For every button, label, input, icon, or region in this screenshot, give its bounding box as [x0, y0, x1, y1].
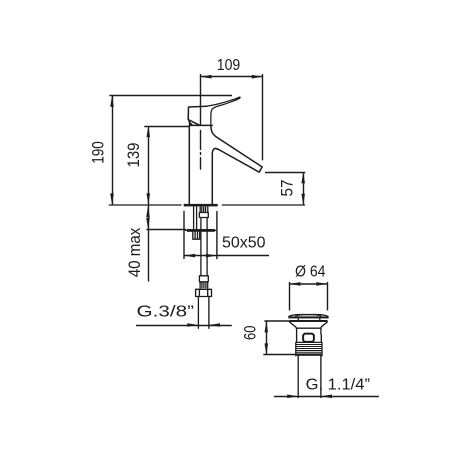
- spout: [211, 125, 262, 172]
- arrow G3/8 left-pointing: [209, 323, 220, 327]
- hose nut knurled: [200, 282, 208, 288]
- flexible hose lower: [201, 232, 207, 276]
- faucet cap notch: [189, 120, 193, 125]
- arrow dia64 left: [289, 282, 300, 286]
- svg-text:G. 1.1/4”: G. 1.1/4”: [306, 377, 370, 394]
- arrow 50x50 left: [184, 254, 195, 258]
- arrow 57 down: [301, 194, 305, 205]
- hex nut G3/8: [196, 289, 212, 296]
- drain flange lower bar: [290, 320, 328, 322]
- arrow 139 down: [147, 193, 151, 204]
- svg-text:40 max: 40 max: [125, 227, 144, 277]
- drain window: [303, 334, 314, 342]
- faucet cap (handle base): [188, 106, 207, 125]
- dim 190 lines: [109, 96, 232, 205]
- drain knurl bottom band: [296, 353, 322, 355]
- dim 40max lines: [146, 205, 186, 282]
- drain body top line: [297, 327, 320, 329]
- arrow 139 up: [147, 126, 151, 137]
- threaded shank with hatch: [200, 206, 208, 212]
- dim 50x50 lines: [184, 211, 269, 259]
- svg-text:60: 60: [241, 326, 260, 340]
- drain plug top face: [296, 315, 322, 317]
- deck line right segment: [222, 204, 304, 206]
- arrow 109 left: [200, 75, 211, 79]
- arrow 57 up: [301, 172, 305, 183]
- hose ferrule: [199, 276, 208, 282]
- arrow 190 down: [110, 193, 114, 204]
- svg-text:109: 109: [217, 57, 241, 74]
- arrow 109 right: [252, 75, 263, 79]
- hose coupling: [199, 213, 208, 218]
- arrow 60 up: [265, 321, 269, 332]
- dim 60 lines: [263, 321, 296, 355]
- mounting flange: [185, 229, 215, 231]
- arrow 40max down: [146, 218, 150, 229]
- dim 57 lines: [265, 172, 305, 205]
- drain body neck: [290, 322, 328, 342]
- connector tube G3/8: [198, 297, 209, 329]
- mounting stud left: [194, 206, 197, 229]
- handle lever: [207, 97, 240, 125]
- deck line left segment: [109, 204, 181, 206]
- dim G1.1/4 line: [274, 396, 379, 398]
- faucet base plate: [184, 204, 218, 207]
- drain knurl section: [296, 342, 322, 355]
- arrow G3/8 right-pointing: [187, 323, 198, 327]
- dim 109 lines: [201, 74, 263, 160]
- dim 139 lines: [144, 126, 188, 205]
- faucet body right edge: [211, 154, 213, 204]
- flexible hose upper: [201, 218, 207, 230]
- svg-text:190: 190: [89, 141, 108, 164]
- arrow 60 down: [265, 343, 269, 354]
- arrow 40max up: [146, 206, 150, 217]
- drain dome cap: [289, 315, 328, 317]
- svg-text:57: 57: [278, 180, 297, 197]
- mounting nut: [193, 232, 200, 239]
- tailpipe edges in flange gap: [298, 318, 320, 320]
- svg-text:50x50: 50x50: [222, 235, 266, 252]
- arrow G1.1/4 right-pointing: [287, 395, 298, 399]
- arrow 50x50 right: [206, 254, 217, 258]
- drain tailpiece: [298, 356, 321, 398]
- faucet body top joint line: [189, 124, 212, 126]
- arrow 190 up: [110, 96, 114, 107]
- dim dia64 lines: [290, 282, 328, 311]
- arrow G1.1/4 left-pointing: [321, 395, 332, 399]
- svg-text:139: 139: [124, 143, 143, 168]
- centerline (dash-dot): [200, 131, 202, 170]
- arrow dia64 right: [316, 282, 327, 286]
- dim G3/8 line: [136, 325, 232, 327]
- svg-text:G.3/8”: G.3/8”: [137, 304, 195, 321]
- svg-text:Ø 64: Ø 64: [295, 264, 326, 281]
- drain cap rim: [288, 316, 328, 318]
- faucet body left edge: [188, 125, 190, 203]
